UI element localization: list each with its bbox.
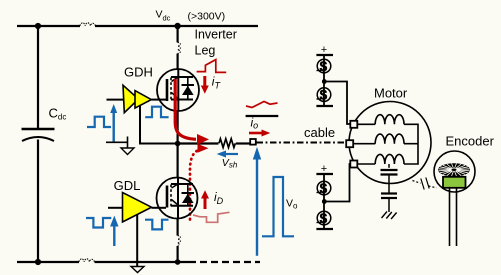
encoder disc: [438, 163, 470, 176]
ground GDL: [131, 267, 144, 273]
svg-text:Motor: Motor: [374, 86, 408, 101]
terminal square bottom: [350, 161, 357, 168]
winding bottom: [357, 154, 404, 164]
waveform red io average: [246, 102, 278, 108]
waveform light red iD: [193, 212, 230, 222]
wire GDL return: [136, 215, 138, 266]
wire output to shunt: [178, 142, 219, 144]
inductor parasitic source: [178, 236, 181, 247]
arrow blue GDL input: [111, 217, 118, 246]
node junction bottom-left: [35, 259, 41, 265]
wire GDL input: [108, 207, 123, 209]
capacitor coupling plates: [421, 178, 429, 190]
transistor bottom MOSFET D: [157, 178, 198, 219]
waveform pulse blue vo: [262, 177, 294, 236]
ground earth motor: [382, 212, 397, 220]
shaft encoder: [450, 188, 457, 246]
svg-text:GDH: GDH: [124, 64, 153, 79]
terminal square top: [350, 121, 357, 128]
svg-text:Encoder: Encoder: [446, 134, 495, 149]
capacitor Cdc: [22, 129, 55, 141]
wire cable dash-dot: [257, 142, 347, 144]
wire drain to top MOSFET: [177, 26, 179, 70]
waveform pulse blue GDH left: [87, 117, 111, 127]
wire top DC bus: [17, 25, 258, 27]
wire dashed motor-encoder coupling: [413, 181, 421, 184]
encoder body green: [443, 177, 466, 188]
wire upper leg: [323, 55, 325, 106]
arrow red iD path dashed: [190, 151, 197, 220]
waveform red iT: [197, 60, 227, 73]
arrow red io: [249, 130, 270, 137]
waveform pulse blue GDL left: [86, 218, 111, 228]
wire mid leg: [177, 111, 179, 178]
wire GDH input: [107, 99, 124, 101]
svg-text:cable: cable: [304, 125, 335, 140]
node bottom junction: [175, 259, 181, 265]
arrow blue vo: [254, 149, 261, 256]
inductor parasitic top bus: [80, 23, 95, 26]
encoder circle: [434, 151, 475, 192]
capacitor frame to ground: [381, 194, 397, 213]
wire GDL gate: [152, 207, 167, 209]
diode body top MOSFET: [182, 86, 194, 95]
rail bar lower top: [316, 173, 333, 175]
node Vdc junction: [174, 23, 180, 29]
switch upper S2: [317, 87, 331, 102]
arrow blue vsh: [217, 151, 238, 158]
inductor parasitic drain: [178, 42, 181, 53]
svg-text:$: $: [320, 87, 328, 102]
buffer GDL triangle: [123, 193, 152, 223]
wire GDH return: [140, 106, 176, 144]
svg-text:GDL: GDL: [114, 178, 141, 193]
wire signal gnd GDH: [106, 137, 128, 149]
svg-text:(>300V): (>300V): [188, 11, 226, 23]
wire star bus: [404, 124, 418, 164]
rail bar lower bottom: [316, 228, 333, 230]
switch lower S4: [317, 211, 331, 226]
wire left rail: [37, 26, 39, 262]
wire bottom rail: [17, 261, 260, 263]
resistor shunt: [219, 139, 235, 148]
node output junction: [175, 141, 181, 147]
arrow red iT down: [201, 76, 209, 94]
winding top: [357, 115, 404, 125]
svg-text:Inverter: Inverter: [195, 28, 237, 42]
winding mid: [353, 134, 404, 144]
wire lower leg to motor: [324, 164, 350, 202]
waveform pulse blue GDL right: [145, 220, 169, 230]
arrow blue GDH input: [110, 104, 117, 142]
node lower midpoint: [322, 199, 327, 204]
wire lower leg: [323, 174, 325, 229]
capacitor winding to frame: [381, 164, 398, 193]
waveform pulse blue GDH right: [145, 107, 168, 118]
node junction top-left: [35, 23, 41, 29]
rail bar upper top: [316, 54, 333, 56]
switch upper S1: [317, 59, 331, 74]
svg-text:$: $: [320, 211, 328, 226]
rail bar upper bottom: [316, 105, 333, 107]
terminal square mid: [346, 140, 353, 147]
wire source to bottom rail: [177, 219, 179, 263]
inductor parasitic bottom bus: [79, 259, 94, 262]
buffer GDH triangle 2: [135, 91, 151, 109]
node square output: [250, 139, 256, 145]
wire upper leg to motor: [324, 82, 350, 125]
buffer GDH triangle 1: [123, 85, 139, 113]
wire shunt to node: [236, 142, 250, 144]
switch lower S3: [317, 181, 331, 196]
node upper midpoint: [322, 79, 327, 84]
svg-text:$: $: [320, 59, 328, 74]
arrow red iD up: [201, 190, 209, 209]
motor circle: [349, 102, 431, 184]
arrow red iT path: [175, 79, 196, 139]
diode body bottom MOSFET: [182, 194, 194, 203]
overline io: [246, 115, 279, 117]
svg-text:$: $: [320, 181, 328, 196]
svg-text:Leg: Leg: [195, 44, 216, 58]
transistor top MOSFET T: [151, 69, 199, 111]
ground GDH: [121, 148, 134, 155]
